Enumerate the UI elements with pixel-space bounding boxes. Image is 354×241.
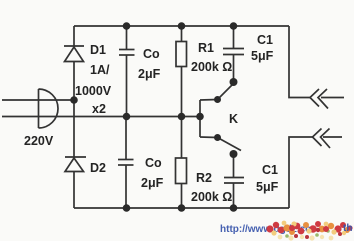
capacitor C1 (lower) xyxy=(224,154,244,208)
connector lower (double chevron) xyxy=(313,129,343,149)
node plug upper / left vertical xyxy=(70,96,78,104)
resistor R1 xyxy=(176,26,187,117)
node relay fixed contact lower xyxy=(230,150,238,158)
label R1 value xyxy=(191,41,232,74)
connector upper (double chevron) xyxy=(310,89,344,109)
svg-text:220V: 220V xyxy=(24,134,54,148)
capacitor Co (upper) xyxy=(119,26,135,117)
label Co lower xyxy=(141,156,164,190)
svg-text:2μF: 2μF xyxy=(138,67,161,81)
watermark flowers xyxy=(266,221,352,241)
wire top rail xyxy=(74,25,289,27)
label D1 value xyxy=(75,43,112,116)
capacitor C1 (upper) xyxy=(223,26,244,82)
svg-text:R1: R1 xyxy=(198,41,214,55)
label R2 value xyxy=(191,171,232,204)
wire plug upper line xyxy=(2,99,74,101)
wire mid rail xyxy=(2,116,200,118)
svg-text:C1: C1 xyxy=(257,33,273,47)
svg-text:Co: Co xyxy=(145,156,162,170)
resistor R2 xyxy=(176,117,187,209)
wire bottom rail xyxy=(74,207,289,209)
node relay arm upper xyxy=(214,96,221,103)
node top rail / R1 xyxy=(178,22,186,30)
svg-text:2μF: 2μF xyxy=(141,176,164,190)
svg-text:200k Ω: 200k Ω xyxy=(191,60,232,74)
svg-text:K: K xyxy=(229,112,238,126)
capacitor Co (lower) xyxy=(118,117,134,209)
220V plug symbol xyxy=(39,89,59,128)
node top rail / C1 xyxy=(230,22,238,30)
svg-text:th: th xyxy=(343,223,352,234)
svg-text:1A/: 1A/ xyxy=(90,63,110,77)
watermark url xyxy=(220,224,311,235)
node bottom rail / C1 xyxy=(230,204,238,212)
svg-text:5μF: 5μF xyxy=(256,180,279,194)
svg-text:Co: Co xyxy=(143,47,160,61)
node mid rail / relay common xyxy=(196,113,204,121)
svg-text:D1: D1 xyxy=(90,43,106,57)
node relay arm lower xyxy=(214,134,221,141)
wire right upper to output connector xyxy=(289,26,310,98)
label C1 upper xyxy=(251,33,274,63)
svg-text:1000V: 1000V xyxy=(75,84,112,98)
svg-text:x2: x2 xyxy=(92,102,106,116)
node mid rail / R1 R2 xyxy=(178,113,186,121)
wire right lower to output connector xyxy=(289,137,313,208)
svg-text:R2: R2 xyxy=(196,171,212,185)
node bottom rail / R2 xyxy=(178,204,186,212)
diode D2 xyxy=(65,157,86,172)
svg-text:5μF: 5μF xyxy=(251,49,274,63)
label Co upper xyxy=(138,47,161,81)
svg-text:200k Ω: 200k Ω xyxy=(191,190,232,204)
label C1 lower xyxy=(256,163,279,194)
wire left vertical xyxy=(73,26,75,208)
svg-text:D2: D2 xyxy=(90,161,106,175)
node bottom rail / Co xyxy=(123,204,131,212)
node relay fixed contact upper xyxy=(230,78,238,86)
relay K contacts xyxy=(200,85,241,151)
svg-text:C1: C1 xyxy=(262,163,278,177)
node top rail / Co xyxy=(123,22,131,30)
node mid rail / Co xyxy=(123,113,131,121)
diode D1 xyxy=(64,46,84,62)
